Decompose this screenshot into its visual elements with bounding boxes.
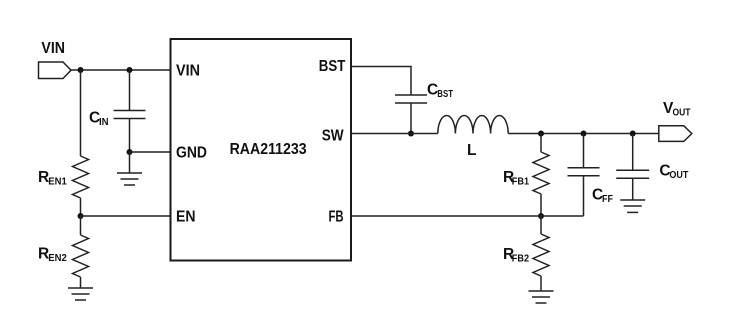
ground COUT xyxy=(620,200,645,212)
svg-text:EN2: EN2 xyxy=(48,252,67,264)
svg-text:FB1: FB1 xyxy=(512,176,529,188)
node junction FB xyxy=(538,213,544,219)
wire CIN top lead xyxy=(129,70,131,111)
svg-text:L: L xyxy=(467,142,476,159)
svg-text:VIN: VIN xyxy=(41,40,65,57)
wire SW rail left xyxy=(351,133,438,135)
op-amp U1 RAA211233 box xyxy=(171,39,352,261)
wire GND to IC xyxy=(130,151,171,153)
svg-text:OUT: OUT xyxy=(673,107,691,119)
wire EN to IC xyxy=(81,215,171,217)
node junction CFF xyxy=(581,131,587,137)
ground CIN xyxy=(117,173,142,185)
wire ground lead CIN xyxy=(129,152,131,173)
inductor L xyxy=(438,115,508,133)
resistor REN1 xyxy=(73,156,89,198)
ground RFB2 xyxy=(529,291,554,303)
label REN1 xyxy=(38,169,67,188)
resistor RFB2 xyxy=(533,234,549,276)
svg-text:RAA211233: RAA211233 xyxy=(230,141,307,158)
node junction COUT xyxy=(630,131,636,137)
label RFB2 xyxy=(503,246,529,265)
output connector VOUT xyxy=(659,126,692,142)
svg-text:VIN: VIN xyxy=(176,62,200,79)
node junction VIN/CIN xyxy=(127,67,133,73)
wire CBST to SW xyxy=(410,103,412,134)
resistor RFB1 xyxy=(533,152,549,194)
label VOUT xyxy=(663,100,691,119)
svg-text:OUT: OUT xyxy=(669,169,688,181)
wire REN1 bottom lead xyxy=(80,198,82,216)
label CFF xyxy=(592,187,614,206)
wire RFB1 bottom lead xyxy=(540,194,542,216)
svg-text:BST: BST xyxy=(437,88,453,100)
wire RFB2 top lead xyxy=(540,216,542,234)
label RFB1 xyxy=(503,169,529,188)
resistor REN2 xyxy=(73,235,89,277)
label REN2 xyxy=(38,246,67,265)
capacitor CBST xyxy=(395,95,427,103)
wire REN2 ground lead xyxy=(80,277,82,288)
wire COUT top lead xyxy=(632,134,634,171)
wire RFB2 ground lead xyxy=(540,276,542,291)
node junction RFB1 xyxy=(538,131,544,137)
label CBST xyxy=(427,82,453,100)
wire COUT ground lead xyxy=(632,178,634,200)
wire FB line xyxy=(351,215,584,217)
wire REN2 top lead xyxy=(80,216,82,235)
capacitor CIN xyxy=(114,111,146,119)
wire SW rail right xyxy=(508,133,659,135)
wire CFF top lead xyxy=(583,134,585,168)
svg-text:EN: EN xyxy=(176,208,196,225)
svg-text:FF: FF xyxy=(602,193,614,205)
wire VIN rail xyxy=(71,69,171,71)
capacitor COUT xyxy=(616,170,649,178)
wire REN1 top lead xyxy=(80,70,82,156)
label COUT xyxy=(659,163,688,182)
ground REN2 xyxy=(68,288,93,300)
svg-text:FB2: FB2 xyxy=(512,253,529,265)
wire CIN bottom lead xyxy=(129,119,131,153)
svg-text:GND: GND xyxy=(176,145,207,162)
wire BST xyxy=(351,67,411,96)
node junction GND xyxy=(127,149,133,155)
node junction EN xyxy=(78,213,84,219)
label CIN xyxy=(89,109,109,128)
node junction SW/CBST xyxy=(408,131,414,137)
svg-text:SW: SW xyxy=(322,128,344,145)
capacitor CFF xyxy=(568,168,600,176)
node junction VIN/REN1 xyxy=(78,67,84,73)
svg-text:BST: BST xyxy=(319,58,346,75)
svg-text:IN: IN xyxy=(99,116,109,128)
svg-text:FB: FB xyxy=(329,208,344,225)
wire RFB1 top lead xyxy=(540,134,542,153)
input connector VIN xyxy=(39,62,72,79)
svg-text:EN1: EN1 xyxy=(48,176,67,188)
wire CFF bottom lead xyxy=(583,176,585,216)
